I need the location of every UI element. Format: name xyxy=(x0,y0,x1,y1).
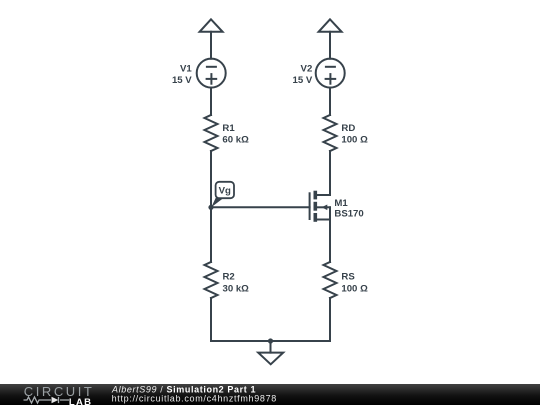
svg-text:LAB: LAB xyxy=(69,397,92,405)
svg-text:30 kΩ: 30 kΩ xyxy=(223,284,250,295)
svg-text:Vg: Vg xyxy=(219,186,231,197)
svg-text:M1: M1 xyxy=(334,198,348,209)
svg-text:RD: RD xyxy=(341,123,355,134)
svg-text:R2: R2 xyxy=(223,271,235,282)
svg-text:100 Ω: 100 Ω xyxy=(341,284,368,295)
svg-text:R1: R1 xyxy=(222,123,235,134)
svg-text:15 V: 15 V xyxy=(293,75,313,86)
svg-text:60 kΩ: 60 kΩ xyxy=(222,135,249,146)
svg-text:http://circuitlab.com/c4hnztfm: http://circuitlab.com/c4hnztfmh9878 xyxy=(112,394,277,404)
svg-text:RS: RS xyxy=(341,271,355,282)
svg-text:V1: V1 xyxy=(180,63,192,74)
svg-text:BS170: BS170 xyxy=(334,209,363,220)
svg-text:V2: V2 xyxy=(301,63,313,74)
svg-text:100 Ω: 100 Ω xyxy=(341,135,368,146)
svg-text:15 V: 15 V xyxy=(172,75,192,86)
